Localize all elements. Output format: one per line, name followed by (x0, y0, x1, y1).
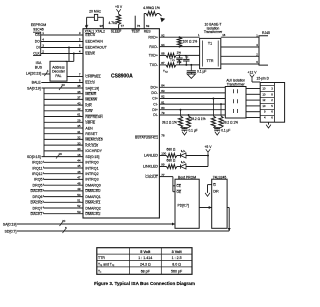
ground arrow for G (205, 193, 210, 196)
resistor 39.2 Ohm 1% on DI- (188, 115, 190, 116)
wire DRQ7 to DMARQ2 (44, 207, 84, 209)
svg-text:8: 8 (65, 226, 67, 230)
svg-text:DACK6: DACK6 (31, 201, 43, 205)
resistor 4.7 kOhm pull-up (117, 14, 121, 24)
wire EEPROM DI to EEDATAOUT (41, 47, 83, 49)
svg-text:CSOUT: CSOUT (145, 175, 158, 179)
svg-text:1 : 2.5: 1 : 2.5 (172, 256, 182, 260)
svg-text:52: 52 (77, 204, 81, 208)
svg-text:Boot PROM: Boot PROM (178, 175, 196, 179)
wire PROM data to 245 (199, 207, 212, 209)
resistor 680 Ohm (167, 153, 177, 157)
svg-text:4.7kΩ: 4.7kΩ (108, 21, 117, 25)
svg-text:IRQ11: IRQ11 (32, 166, 42, 170)
wire LED to +5V rail (186, 166, 208, 168)
svg-text:16: 16 (77, 153, 81, 157)
svg-text:Transformer: Transformer (227, 83, 246, 87)
svg-text:CS8900A: CS8900A (111, 74, 133, 80)
wire +5V rail vertical (207, 154, 209, 166)
svg-text:TTR: TTR (98, 256, 105, 260)
svg-text:EEDATAOUT: EEDATAOUT (85, 46, 107, 50)
svg-text:INTRQ3: INTRQ3 (85, 178, 98, 182)
svg-text:35: 35 (77, 124, 81, 128)
svg-text:ELCS: ELCS (85, 81, 95, 85)
svg-text:INTRQ1: INTRQ1 (85, 166, 98, 170)
svg-text:IRQ10: IRQ10 (32, 161, 42, 165)
svg-text:EECS: EECS (85, 33, 95, 37)
ISA vertical bus line (43, 88, 45, 157)
wire AUI transformer to D15 row 1 (246, 88, 260, 90)
svg-text:REFRESH: REFRESH (85, 115, 103, 119)
svg-text:61: 61 (77, 113, 81, 117)
wire IRQ11 to INTRQ1 (44, 167, 84, 169)
wire AUI transformer to D15 row 2 (246, 93, 260, 95)
svg-text:DACK7: DACK7 (31, 212, 43, 216)
wire ISA row SA[0:19] (42, 87, 84, 89)
svg-text:680 Ω: 680 Ω (167, 159, 176, 163)
svg-text:46: 46 (77, 170, 81, 174)
svg-text:38: 38 (77, 84, 81, 88)
crystal Y1 body (94, 14, 97, 20)
wire LINKLED to resistor (159, 166, 166, 168)
transformer winding mark (233, 109, 235, 113)
svg-text:37: 37 (77, 96, 81, 100)
svg-text:TEST: TEST (132, 30, 140, 34)
resistor Tx2 series (166, 63, 176, 67)
wire ISA row MEMCS16 (44, 138, 83, 140)
svg-text:DMARQ0: DMARQ0 (85, 184, 100, 188)
svg-text:560 pF: 560 pF (171, 269, 183, 273)
latch 74LS245 U4 body (212, 179, 227, 228)
svg-text:OE: OE (177, 190, 182, 194)
svg-text:IOCHRDY: IOCHRDY (85, 149, 102, 153)
svg-text:EEPROM: EEPROM (31, 23, 47, 27)
wire ISA row IOR (44, 104, 83, 106)
wire joining DI resistors (181, 127, 189, 129)
wire ISA row IOCHRDY (44, 150, 83, 152)
wire DACK5 to DMACK0 (44, 190, 84, 192)
svg-text:8.0 Ω: 8.0 Ω (172, 263, 181, 267)
svg-text:44: 44 (77, 159, 81, 163)
svg-text:DIR: DIR (213, 189, 219, 193)
svg-text:32: 32 (77, 136, 81, 140)
svg-text:20 MHz: 20 MHz (89, 9, 101, 13)
resistor Tx1 series (166, 53, 176, 57)
svg-text:CI+: CI+ (152, 97, 158, 101)
svg-text:39.2 Ω 1%: 39.2 Ω 1% (162, 120, 177, 124)
capacitor 0.1 uF bypass (187, 70, 196, 72)
svg-text:10: 10 (262, 104, 266, 108)
wire +12V to D15 connector (251, 80, 253, 83)
svg-text:74LS245: 74LS245 (213, 175, 227, 179)
wire ISA row RESET (44, 133, 83, 135)
svg-text:24.3 Ω: 24.3 Ω (140, 263, 151, 267)
capacitor 0.1 uF AUI CI (214, 128, 220, 130)
capacitor 0.1 uF AUI DI (182, 128, 188, 130)
wire SLEEP pull-up (118, 25, 120, 29)
svg-text:Decoder: Decoder (52, 70, 66, 74)
bus slash 20 (60, 222, 63, 226)
resistor 680 Ohm (167, 164, 177, 168)
wire LA[20:23] to PAL (42, 73, 50, 75)
svg-text:RXD+: RXD+ (148, 35, 158, 39)
svg-text:Tₓ₁ and Tₓ₂: Tₓ₁ and Tₓ₂ (98, 263, 115, 267)
D15 cell divider (260, 97, 274, 99)
svg-text:20: 20 (62, 83, 66, 87)
wire SD bus bottom (17, 230, 229, 232)
svg-text:C: C (180, 62, 182, 64)
wire LANLED to resistor (159, 155, 166, 157)
svg-text:IRQ12: IRQ12 (32, 172, 42, 176)
svg-text:DMACK2: DMACK2 (85, 212, 100, 216)
svg-text:77: 77 (121, 24, 125, 28)
wire to PROM OE (173, 191, 175, 193)
wire AUI transformer to D15 row 6 (246, 117, 260, 119)
svg-text:6: 6 (271, 110, 273, 114)
svg-text:DI-: DI- (153, 113, 159, 117)
wire ISA row MEMR (44, 93, 83, 95)
svg-text:CE: CE (177, 184, 181, 188)
wire DO+ to AUI transformer (159, 86, 225, 88)
ground arrow (184, 130, 186, 131)
ground arrow (216, 130, 218, 131)
wire EESK branch down to PAL (73, 54, 75, 62)
svg-text:DI+: DI+ (152, 108, 158, 112)
wire transformer to RJ45 pin 2 (221, 55, 259, 57)
svg-text:PD[0:7]: PD[0:7] (178, 203, 189, 207)
power +5V arrow (116, 9, 120, 14)
wire IRQ12 to INTRQ2 (44, 173, 84, 175)
svg-text:CS: CS (35, 33, 40, 37)
svg-text:4.99kΩ 1%: 4.99kΩ 1% (143, 6, 160, 10)
wire D15 ground (268, 122, 270, 124)
svg-text:DO-: DO- (151, 91, 158, 95)
svg-text:Address: Address (52, 65, 65, 69)
svg-text:12: 12 (262, 98, 266, 102)
svg-text:RJ45: RJ45 (262, 31, 270, 35)
D15 cell divider (260, 91, 274, 93)
svg-text:SA[0:19]: SA[0:19] (27, 86, 41, 90)
wire ISA row SBHE (44, 121, 83, 123)
svg-text:98: 98 (100, 24, 104, 28)
svg-text:Figure 3. Typical ISA Bus Con: Figure 3. Typical ISA Bus Connection Dia… (94, 281, 195, 286)
wire EEPROM CLK to EESK (41, 53, 83, 55)
svg-text:LANLED: LANLED (144, 154, 158, 158)
svg-text:1 : 1.414: 1 : 1.414 (138, 256, 152, 260)
svg-text:SD[0:15]: SD[0:15] (27, 155, 41, 159)
svg-text:X2: X2 (165, 72, 168, 74)
svg-text:DRQ5: DRQ5 (33, 184, 43, 188)
wire TXD+ segment (159, 54, 166, 56)
svg-text:BSTATUS/HC1: BSTATUS/HC1 (135, 136, 158, 140)
wire AUI transformer to D15 row 4 (246, 105, 260, 107)
svg-text:EEDATAIN: EEDATAIN (85, 40, 103, 44)
svg-text:SA[0:19]: SA[0:19] (3, 222, 17, 226)
bus slash 4 (44, 72, 47, 76)
svg-text:3: 3 (271, 87, 273, 91)
wire BALE / ELCS row (41, 82, 83, 84)
svg-text:5 Volt: 5 Volt (140, 250, 151, 254)
svg-text:DI: DI (36, 46, 39, 50)
resistor 39.2 Ohm 1% on CI+ (212, 99, 214, 117)
D15 cell divider (260, 85, 274, 87)
svg-text:TTR: TTR (207, 59, 214, 63)
resistor 39.2 Ohm 1% on CI- (220, 104, 222, 116)
svg-text:XTAL2: XTAL2 (95, 30, 105, 34)
transformer T1 windings (202, 41, 204, 67)
svg-text:34: 34 (77, 147, 81, 151)
svg-text:42: 42 (77, 107, 81, 111)
svg-text:DMACK0: DMACK0 (85, 189, 100, 193)
svg-text:DO: DO (35, 40, 40, 44)
svg-text:DO+: DO+ (151, 86, 159, 90)
capacitor Tc on TXD+ (179, 55, 181, 58)
wire TXD- segment (159, 64, 166, 66)
wire CI+ to AUI transformer (159, 98, 225, 100)
svg-text:+5 V: +5 V (115, 5, 123, 9)
wire PAL top joining segment (66, 60, 74, 62)
LED D2 (181, 164, 187, 169)
wire RXD+ to transformer (159, 36, 199, 38)
15-pin D connector J2 body (260, 83, 284, 123)
svg-text:100 Ω 1%: 100 Ω 1% (183, 40, 198, 44)
svg-text:IOW: IOW (85, 109, 93, 113)
svg-text:AEN: AEN (85, 126, 93, 130)
wire DI+ to AUI transformer (159, 109, 225, 111)
svg-text:10: 10 (262, 87, 266, 91)
wire CI- to AUI transformer (159, 103, 225, 105)
svg-text:50: 50 (77, 193, 81, 197)
wire transformer to RJ45 pin 6 (221, 63, 259, 65)
wire joining CI resistors (213, 127, 221, 129)
capacitor Tc on TXD- (185, 55, 187, 59)
bus slash 16 on SD[0:15] (56, 155, 59, 159)
wire TXD+ to transformer (176, 54, 200, 56)
svg-text:33: 33 (77, 141, 81, 145)
svg-text:43: 43 (77, 101, 81, 105)
transformer winding mark (233, 89, 235, 93)
svg-text:Tₓ: Tₓ (98, 269, 102, 273)
svg-text:T1: T1 (208, 41, 212, 45)
svg-text:39.2 Ω 1%: 39.2 Ω 1% (191, 117, 206, 121)
svg-text:1%: 1% (177, 50, 182, 54)
wire ISA row AEN (44, 127, 83, 129)
svg-text:DMARQ2: DMARQ2 (85, 206, 100, 210)
svg-text:39.2 Ω 1%: 39.2 Ω 1% (223, 120, 238, 124)
wire crystal loop (87, 16, 95, 18)
wire AUI transformer to D15 row 3 (246, 99, 260, 101)
svg-text:63: 63 (146, 24, 150, 28)
wire EEPROM CS to EECS (41, 34, 83, 36)
power +12V arrow (250, 75, 254, 80)
svg-text:CI-: CI- (153, 102, 159, 106)
svg-text:1: 1 (198, 33, 200, 37)
wire EEPROM DO to EEDATAIN (41, 41, 83, 43)
svg-text:+12 V: +12 V (248, 70, 258, 74)
wire LED to +5V rail (186, 155, 208, 157)
svg-text:INTRQ0: INTRQ0 (85, 161, 98, 165)
svg-text:16: 16 (222, 33, 226, 37)
D15 cell divider (260, 103, 274, 105)
wire TXD- to transformer (176, 64, 200, 66)
svg-text:RESET: RESET (85, 132, 98, 136)
wire ISA row IOW (44, 110, 83, 112)
wire ISA row IOCS16 (44, 144, 83, 146)
svg-text:ISA: ISA (36, 61, 42, 65)
svg-text:76: 76 (137, 24, 141, 28)
LED D1 (181, 153, 187, 158)
svg-text:SBHE: SBHE (85, 121, 95, 125)
D15 inner cell divider (273, 83, 275, 123)
svg-text:IRQ5: IRQ5 (34, 178, 42, 182)
svg-text:G: G (213, 183, 216, 187)
wire ISA row REFRESH (44, 116, 83, 118)
svg-text:LINKLED: LINKLED (143, 165, 158, 169)
wire RXD- to transformer (159, 46, 199, 48)
wire 245 to SD bus (227, 207, 229, 209)
EEPROM symbol bracket (33, 32, 41, 55)
svg-text:4: 4 (264, 116, 266, 120)
svg-text:MEMR: MEMR (85, 92, 96, 96)
wire RES resistor to ground (157, 13, 159, 15)
wire DACK7 to DMACK2 (44, 213, 84, 215)
wire RES pin (144, 13, 146, 15)
svg-text:2: 2 (271, 98, 273, 102)
arrow into SD bus (228, 228, 231, 231)
wire DRQ6 to DMARQ1 (44, 196, 84, 198)
svg-text:TXD+: TXD+ (149, 54, 158, 58)
svg-text:EESK: EESK (85, 52, 95, 56)
svg-text:36: 36 (77, 90, 81, 94)
svg-text:78: 78 (161, 134, 165, 138)
svg-text:0.1 μF: 0.1 μF (197, 70, 206, 74)
svg-text:PAL: PAL (55, 74, 61, 78)
wire ISA row SD[0:15] (42, 156, 84, 158)
svg-text:16: 16 (59, 152, 63, 156)
wire DRQ5 to DMARQ0 (44, 184, 84, 186)
svg-text:DMACK1: DMACK1 (85, 201, 100, 205)
svg-text:BALE: BALE (32, 81, 42, 85)
wire TEST stub (134, 16, 136, 29)
svg-text:DACK5: DACK5 (31, 189, 43, 193)
ground arrow for D15 (266, 125, 271, 128)
svg-text:51: 51 (77, 199, 81, 203)
wire AUI transformer to D15 row 5 (246, 111, 260, 113)
ground arrow for RES resistor (160, 18, 165, 23)
svg-text:680 Ω: 680 Ω (167, 148, 176, 152)
svg-text:3 Volt: 3 Volt (172, 250, 183, 254)
wire to PROM CE (173, 185, 175, 187)
wire IRQ5 to INTRQ3 (44, 178, 84, 180)
resistor 39.2 Ohm 1% on DI+ (180, 110, 182, 116)
svg-text:RES: RES (144, 30, 152, 34)
svg-text:Transformer: Transformer (204, 30, 223, 34)
resistor 100 Ohm 1% across RXD pair (177, 37, 181, 46)
svg-text:SD[0:15]: SD[0:15] (85, 155, 99, 159)
svg-text:XTAL1: XTAL1 (85, 30, 95, 34)
AUI isolation transformer T2 body (225, 87, 246, 119)
svg-text:47: 47 (77, 176, 81, 180)
svg-text:BUS: BUS (35, 66, 43, 70)
svg-text:10: 10 (262, 92, 266, 96)
Boot PROM U3 body (175, 179, 199, 228)
wire TXD- center to bypass cap (190, 65, 192, 71)
svg-text:INTRQ2: INTRQ2 (85, 172, 98, 176)
CS8900A main IC body (83, 29, 159, 218)
svg-text:9: 9 (264, 110, 266, 114)
D15 cell divider (260, 115, 274, 117)
svg-text:SD[0:7]: SD[0:7] (5, 229, 17, 233)
svg-text:MEMCS16: MEMCS16 (85, 138, 102, 142)
wire resistor to LED (177, 155, 181, 157)
svg-text:SA[0:19]: SA[0:19] (85, 86, 99, 90)
svg-text:68 pF: 68 pF (141, 269, 151, 273)
wire G to ground (208, 184, 212, 186)
svg-text:4: 4 (47, 69, 49, 73)
bus slash 8 (63, 229, 66, 233)
svg-text:31: 31 (77, 130, 81, 134)
wire DI- to AUI transformer (159, 114, 225, 116)
svg-text:45: 45 (77, 164, 81, 168)
power +5V arrow (206, 149, 210, 154)
svg-text:15-pin D: 15-pin D (257, 77, 270, 81)
wire SA bus bottom (17, 223, 175, 225)
svg-text:RXD-: RXD- (149, 45, 159, 49)
bus slash 20 on SA[0:19] (59, 86, 62, 90)
svg-text:0.1 μF: 0.1 μF (221, 129, 230, 133)
svg-text:CHIPSEL: CHIPSEL (85, 75, 100, 79)
wire resistor to LED (177, 166, 181, 168)
transformer winding mark (233, 99, 235, 103)
svg-text:5: 5 (271, 104, 273, 108)
wire DO- to AUI transformer (159, 92, 225, 94)
svg-text:8: 8 (271, 92, 273, 96)
wire PAL output CHIPSEL (67, 76, 83, 78)
svg-text:IOCS16: IOCS16 (85, 143, 98, 147)
svg-text:+5 V: +5 V (204, 145, 212, 149)
svg-text:DRQ7: DRQ7 (33, 206, 43, 210)
wire transformer to RJ45 pin 1 (221, 36, 259, 38)
svg-text:IOR: IOR (85, 103, 92, 107)
D15 cell divider (260, 109, 274, 111)
wire EEDATAOUT branch down to PAL (68, 48, 70, 62)
wire ISA row MEMW (44, 98, 83, 100)
wire IRQ10 to INTRQ0 (44, 161, 84, 163)
wire DACK6 to DMACK1 (44, 201, 84, 203)
svg-text:97: 97 (85, 24, 89, 28)
svg-text:DRQ6: DRQ6 (33, 195, 43, 199)
svg-text:CLK: CLK (33, 52, 40, 56)
svg-text:53: 53 (77, 210, 81, 214)
svg-text:TXD-: TXD- (150, 63, 159, 67)
svg-text:29: 29 (77, 119, 81, 123)
ground triangle (190, 72, 192, 74)
wire CSOUT (159, 176, 173, 178)
svg-text:MEMW: MEMW (85, 98, 97, 102)
svg-text:LA[20:23]: LA[20:23] (26, 71, 41, 75)
svg-text:48: 48 (77, 181, 81, 185)
RJ45 connector J1 (259, 36, 268, 65)
component value table (97, 248, 192, 275)
address decoder PAL U2 (50, 61, 67, 81)
svg-text:6: 6 (271, 116, 273, 120)
transformer T1 body (200, 38, 221, 68)
svg-text:SLEEP: SLEEP (111, 30, 122, 34)
svg-text:0.1 μF: 0.1 μF (189, 129, 198, 133)
svg-text:DMARQ1: DMARQ1 (85, 195, 100, 199)
wire transformer to RJ45 pin 3 (221, 46, 259, 48)
svg-text:49: 49 (77, 187, 81, 191)
